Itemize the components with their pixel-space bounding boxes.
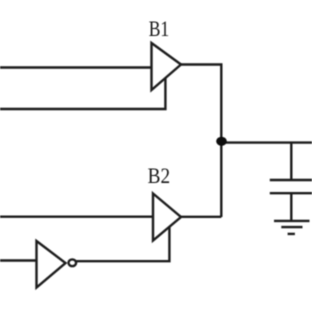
wire: B1 lower control input [0, 78, 165, 109]
wire: capacitor top lead [290, 143, 292, 180]
inverter U1 [37, 241, 66, 288]
wire: B1 output to vertical bus [181, 65, 221, 218]
buffer B1 [152, 43, 182, 90]
inverter bubble [69, 259, 77, 266]
wire: node to right edge (capacitor branch) [221, 141, 312, 143]
buffer B2 [153, 194, 181, 241]
ground [274, 221, 310, 234]
wire: inverter input [0, 259, 37, 261]
node A: junction dot [216, 137, 227, 146]
svg-text:B2: B2 [148, 163, 171, 188]
svg-text:B1: B1 [149, 16, 170, 41]
wire: top input to B1 [0, 66, 153, 68]
wire: inverter output to B2 control input [76, 227, 169, 262]
wire: capacitor bottom lead [290, 193, 292, 221]
wire: B2 input [0, 215, 154, 217]
wire: B2 output to vertical bus [181, 216, 221, 218]
capacitor C [270, 179, 312, 181]
